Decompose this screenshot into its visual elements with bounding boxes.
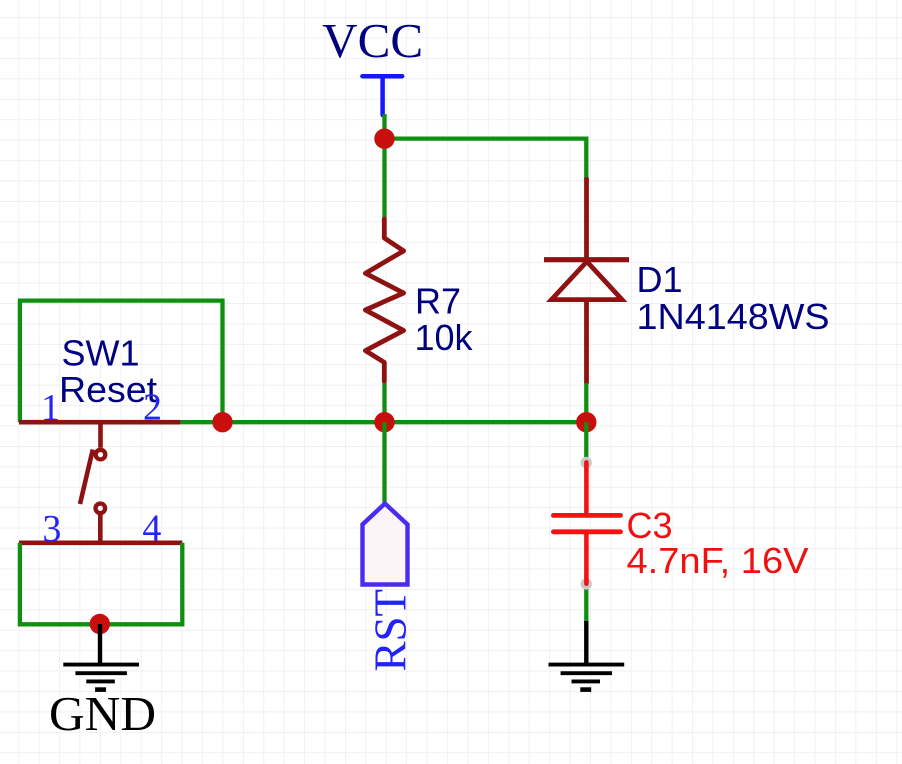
ground GND right — [549, 621, 625, 690]
wire C3 to ground — [584, 584, 588, 622]
svg-text:RST: RST — [366, 589, 416, 672]
wire junction down to R7 — [382, 139, 386, 219]
wire main horizontal node — [179, 420, 586, 424]
wire top-left box — [20, 301, 223, 423]
contact stub bottom — [98, 514, 103, 543]
svg-text:10k: 10k — [415, 317, 474, 358]
pin end marker top of C3 — [581, 457, 592, 468]
svg-text:SW1: SW1 — [61, 332, 139, 373]
svg-text:R7: R7 — [415, 281, 461, 322]
switch SW1 — [19, 422, 182, 543]
junction middle — [374, 412, 394, 432]
svg-text:1N4148WS: 1N4148WS — [637, 296, 830, 337]
junction left — [212, 412, 232, 432]
contact circle bottom — [96, 504, 106, 514]
lever — [80, 450, 93, 505]
wire bottom-left box — [20, 543, 182, 625]
wire D1 anode to main node — [584, 383, 588, 422]
hierarchical label RST shape — [363, 504, 408, 585]
junction at VCC node — [374, 129, 394, 149]
contact circle top — [96, 450, 106, 460]
svg-text:GND: GND — [49, 688, 156, 741]
svg-text:VCC: VCC — [322, 15, 423, 68]
wire top horizontal to D1 branch — [385, 139, 587, 179]
junction at GND node — [90, 614, 110, 634]
pin end marker bottom of C3 — [581, 578, 592, 589]
power symbol VCC — [362, 76, 402, 115]
pin 3 / pin 4 line — [19, 540, 182, 545]
ground GND left — [63, 624, 139, 690]
svg-text:1: 1 — [41, 387, 60, 429]
svg-text:3: 3 — [42, 508, 61, 550]
pin 1 / pin 2 line — [19, 420, 180, 425]
wire R7 to main node — [382, 383, 386, 422]
diode D1 — [544, 178, 629, 385]
svg-text:4.7nF, 16V: 4.7nF, 16V — [627, 540, 809, 581]
wire VCC to junction — [382, 114, 386, 139]
contact stub top — [98, 422, 103, 448]
svg-text:4: 4 — [142, 507, 161, 549]
capacitor C3 — [553, 462, 620, 583]
svg-text:2: 2 — [143, 387, 162, 429]
wire main node to RST label — [382, 422, 386, 503]
svg-text:D1: D1 — [637, 259, 683, 300]
wire main node to C3 — [584, 422, 588, 461]
junction right — [576, 412, 596, 432]
resistor R7 — [365, 219, 403, 382]
